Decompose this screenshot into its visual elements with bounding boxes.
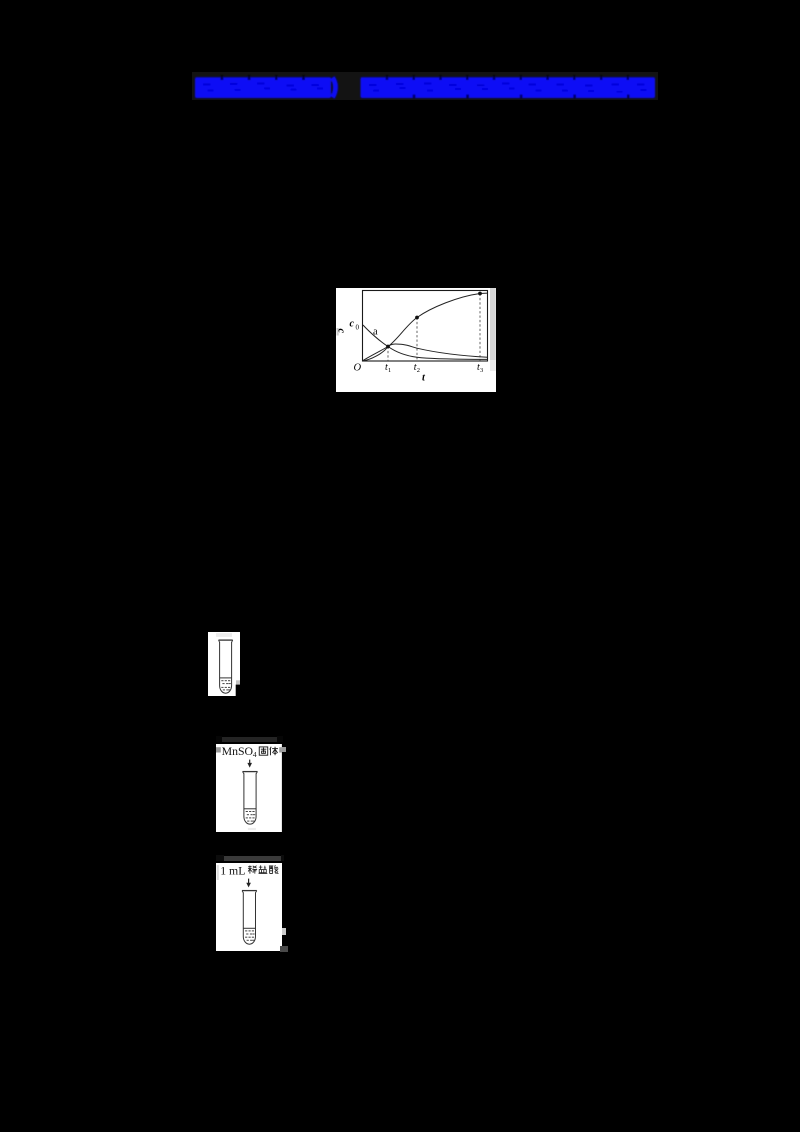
svg-text:2: 2	[417, 367, 420, 374]
svg-text:1 mL: 1 mL	[220, 863, 245, 877]
svg-text:O: O	[354, 363, 362, 374]
svg-text:1: 1	[388, 367, 391, 374]
svg-text:c: c	[336, 329, 347, 334]
svg-text:3: 3	[480, 367, 483, 374]
svg-text:a: a	[373, 327, 378, 338]
svg-text:MnSO: MnSO	[221, 744, 253, 758]
svg-text:c: c	[350, 319, 355, 330]
svg-text:0: 0	[356, 324, 360, 332]
svg-text:4: 4	[253, 750, 257, 759]
